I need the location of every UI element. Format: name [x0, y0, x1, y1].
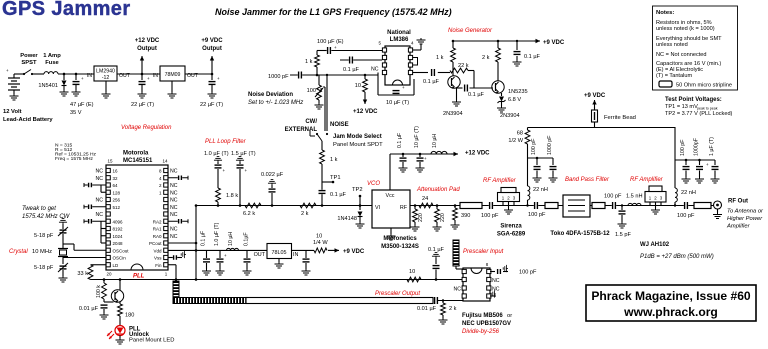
- svg-text:+12 VDC: +12 VDC: [135, 38, 160, 44]
- svg-text:NC = Not connected: NC = Not connected: [656, 52, 707, 58]
- svg-text:NC: NC: [170, 227, 178, 233]
- svg-text:National: National: [387, 30, 411, 36]
- svg-text:NC: NC: [96, 212, 104, 218]
- svg-text:MC145151: MC145151: [123, 158, 153, 164]
- svg-text:Noise Generator: Noise Generator: [448, 28, 493, 34]
- svg-text:1/2 W: 1/2 W: [508, 138, 523, 144]
- svg-text:Test Point Voltages:: Test Point Voltages:: [665, 97, 722, 103]
- svg-text:1 k: 1 k: [436, 55, 444, 61]
- svg-text:100 pF: 100 pF: [528, 212, 546, 218]
- svg-text:100: 100: [307, 88, 316, 94]
- svg-text:Fin: Fin: [155, 263, 162, 268]
- svg-text:1N5401: 1N5401: [38, 83, 58, 89]
- svg-text:14: 14: [162, 159, 168, 164]
- svg-text:Vss: Vss: [154, 256, 162, 261]
- svg-text:NC: NC: [96, 176, 104, 182]
- svg-text:+: +: [217, 76, 220, 81]
- svg-text:22 µF (T): 22 µF (T): [200, 102, 223, 108]
- svg-text:Vdd: Vdd: [153, 248, 162, 253]
- svg-text:100 µF (E): 100 µF (E): [317, 39, 344, 45]
- svg-text:GPS Jammer: GPS Jammer: [2, 0, 131, 20]
- svg-text:PLL Loop Filter: PLL Loop Filter: [205, 139, 247, 145]
- svg-text:Toko 4DFA-1575B-12: Toko 4DFA-1575B-12: [550, 231, 610, 237]
- svg-text:+9 VDC: +9 VDC: [201, 38, 223, 44]
- svg-text:OUT: OUT: [254, 252, 266, 258]
- svg-text:OSCout: OSCout: [113, 248, 130, 253]
- svg-text:+: +: [81, 76, 84, 81]
- svg-text:Ferrite Bead: Ferrite Bead: [604, 115, 636, 121]
- svg-text:RF: RF: [400, 205, 408, 211]
- svg-text:1000 pF: 1000 pF: [547, 135, 553, 155]
- svg-text:Crystal: Crystal: [9, 249, 28, 255]
- svg-text:Divide-by-256: Divide-by-256: [462, 329, 500, 335]
- svg-text:5: 5: [378, 41, 381, 46]
- svg-text:0.022 µF: 0.022 µF: [261, 172, 284, 178]
- svg-text:NC: NC: [170, 198, 178, 204]
- svg-text:+: +: [706, 162, 709, 167]
- svg-text:12 Volt: 12 Volt: [3, 109, 22, 115]
- svg-text:NC: NC: [170, 190, 178, 196]
- svg-text:100 pF: 100 pF: [519, 270, 537, 276]
- svg-text:Fuse: Fuse: [45, 60, 59, 66]
- svg-text:Voltage Regulation: Voltage Regulation: [121, 125, 172, 131]
- svg-text:Micronetics: Micronetics: [383, 236, 417, 242]
- svg-text:Vcc: Vcc: [386, 193, 395, 199]
- svg-text:Higher Power: Higher Power: [727, 216, 763, 222]
- svg-text:0.1 µF: 0.1 µF: [330, 192, 347, 198]
- svg-text:1000 pF: 1000 pF: [268, 74, 289, 80]
- svg-text:Notes:: Notes:: [656, 10, 674, 16]
- svg-text:1 Amp: 1 Amp: [43, 53, 61, 59]
- svg-text:10 µF (T): 10 µF (T): [414, 126, 420, 148]
- svg-text:NEC UPB1507GV: NEC UPB1507GV: [462, 321, 511, 327]
- svg-text:OUT: OUT: [119, 73, 131, 79]
- svg-text:0.1 µF: 0.1 µF: [423, 79, 440, 85]
- svg-text:512: 512: [113, 205, 121, 210]
- svg-text:2 k: 2 k: [482, 55, 490, 61]
- svg-text:1 k: 1 k: [330, 157, 338, 163]
- svg-text:15: 15: [107, 159, 113, 164]
- svg-text:PLL: PLL: [133, 274, 145, 280]
- svg-text:1N5235: 1N5235: [508, 89, 528, 95]
- svg-text:220: 220: [440, 213, 446, 222]
- svg-text:+: +: [245, 168, 248, 173]
- svg-text:0.1 µF: 0.1 µF: [343, 67, 360, 73]
- svg-text:8192: 8192: [113, 227, 124, 232]
- svg-text:6.2 k: 6.2 k: [243, 211, 255, 217]
- svg-text:Prescaler Input: Prescaler Input: [463, 249, 504, 255]
- svg-text:47 µF (E): 47 µF (E): [70, 102, 94, 108]
- svg-text:1.5 µF (T): 1.5 µF (T): [231, 151, 256, 157]
- svg-text:Panel Mount LED: Panel Mount LED: [129, 338, 174, 344]
- svg-text:1575.42 MHz CW: 1575.42 MHz CW: [22, 214, 71, 220]
- svg-text:-12: -12: [102, 75, 110, 81]
- svg-text:100 pF: 100 pF: [531, 138, 537, 155]
- svg-text:35 V: 35 V: [70, 110, 82, 116]
- svg-text:100 pF: 100 pF: [604, 194, 622, 200]
- svg-text:(T) = Tantalum: (T) = Tantalum: [656, 73, 692, 79]
- svg-text:0.1 µF: 0.1 µF: [468, 92, 485, 98]
- svg-text:220: 220: [418, 213, 424, 222]
- svg-text:+: +: [424, 156, 427, 161]
- svg-text:Band Pass Filter: Band Pass Filter: [565, 177, 610, 183]
- svg-text:Power: Power: [20, 53, 38, 59]
- svg-text:256: 256: [113, 198, 121, 203]
- svg-text:100 pF: 100 pF: [677, 213, 695, 219]
- svg-text:10 µH: 10 µH: [432, 134, 438, 148]
- svg-text:1.8 k: 1.8 k: [226, 193, 238, 199]
- svg-text:SGA-6289: SGA-6289: [497, 232, 526, 238]
- svg-text:+: +: [6, 68, 9, 73]
- svg-text:IN: IN: [87, 73, 92, 79]
- svg-text:Panel Mount SPDT: Panel Mount SPDT: [333, 142, 383, 148]
- svg-text:Lead-Acid Battery: Lead-Acid Battery: [3, 117, 53, 123]
- svg-text:NC: NC: [170, 212, 178, 218]
- svg-text:LM386: LM386: [390, 37, 409, 43]
- svg-text:10 MHz: 10 MHz: [32, 249, 52, 255]
- svg-text:Freq = 1575 MHz: Freq = 1575 MHz: [55, 156, 93, 162]
- svg-text:PCout: PCout: [149, 241, 162, 246]
- svg-text:10 µF (T): 10 µF (T): [386, 100, 409, 106]
- svg-text:22 nH: 22 nH: [533, 187, 548, 193]
- svg-text:10: 10: [316, 234, 322, 240]
- svg-text:LM2940: LM2940: [96, 69, 115, 75]
- svg-text:+9 VDC: +9 VDC: [584, 93, 606, 99]
- svg-text:peak to peak: peak to peak: [697, 107, 718, 111]
- svg-text:10: 10: [355, 83, 361, 89]
- svg-text:1: 1: [165, 272, 168, 277]
- svg-text:+9 VDC: +9 VDC: [343, 249, 365, 255]
- svg-text:10 µH: 10 µH: [228, 232, 234, 246]
- svg-text:22 µF (T): 22 µF (T): [131, 102, 154, 108]
- svg-text:1024: 1024: [113, 234, 124, 239]
- svg-text:1 µF (T): 1 µF (T): [709, 137, 715, 156]
- svg-text:NC: NC: [96, 198, 104, 204]
- svg-text:+: +: [402, 85, 405, 90]
- svg-text:WJ AH102: WJ AH102: [640, 242, 670, 248]
- svg-text:1N4148: 1N4148: [337, 216, 357, 222]
- svg-text:Tweak to get: Tweak to get: [22, 206, 56, 212]
- svg-text:2 k: 2 k: [449, 306, 457, 312]
- svg-text:Prescaler Output: Prescaler Output: [375, 291, 420, 297]
- svg-text:unless noted: unless noted: [656, 42, 688, 48]
- svg-text:NC: NC: [454, 287, 462, 293]
- svg-text:NC: NC: [170, 183, 178, 189]
- svg-text:TP1: TP1: [330, 175, 341, 181]
- svg-text:RF Out: RF Out: [728, 199, 748, 205]
- svg-text:16: 16: [113, 169, 119, 174]
- svg-text:1.0 µF (T): 1.0 µF (T): [204, 151, 229, 157]
- svg-text:100 k: 100 k: [96, 285, 102, 298]
- svg-text:OUT: OUT: [187, 73, 199, 79]
- svg-text:VI: VI: [375, 205, 380, 211]
- svg-text:Sirenza: Sirenza: [500, 224, 522, 230]
- svg-text:2N3904: 2N3904: [443, 111, 463, 117]
- svg-text:unless noted (k = 1000): unless noted (k = 1000): [656, 26, 715, 32]
- svg-text:5-18 pF: 5-18 pF: [34, 233, 54, 239]
- svg-text:1 k: 1 k: [305, 59, 313, 65]
- svg-text:32: 32: [113, 176, 119, 181]
- svg-text:5-18 pF: 5-18 pF: [34, 265, 54, 271]
- svg-text:Amplifier: Amplifier: [726, 224, 751, 230]
- svg-text:VCO: VCO: [367, 181, 380, 187]
- svg-text:0.1 µF: 0.1 µF: [397, 132, 403, 148]
- svg-text:Output: Output: [202, 46, 222, 52]
- svg-text:RA1: RA1: [153, 227, 162, 232]
- svg-text:+9 VDC: +9 VDC: [543, 40, 565, 46]
- svg-text:+: +: [334, 45, 337, 50]
- svg-text:100 pF: 100 pF: [680, 139, 686, 156]
- svg-text:CW/: CW/: [305, 119, 317, 125]
- svg-text:390: 390: [461, 213, 470, 219]
- svg-text:1.5 nH: 1.5 nH: [626, 194, 642, 200]
- svg-text:1.5 pF: 1.5 pF: [615, 232, 631, 238]
- svg-text:+12 VDC: +12 VDC: [353, 109, 378, 115]
- svg-text:LD: LD: [113, 263, 120, 268]
- svg-text:Jam Mode Select: Jam Mode Select: [333, 134, 382, 140]
- svg-text:64: 64: [113, 183, 119, 188]
- svg-text:0.1µF: 0.1µF: [244, 232, 250, 246]
- svg-text:NC: NC: [170, 169, 178, 175]
- svg-text:NC: NC: [371, 67, 379, 73]
- svg-text:NC: NC: [170, 234, 178, 240]
- svg-text:+: +: [147, 76, 150, 81]
- svg-text:1000pF: 1000pF: [694, 137, 700, 156]
- svg-text:+: +: [224, 253, 227, 258]
- svg-text:6.8 V: 6.8 V: [508, 97, 521, 103]
- svg-text:SPST: SPST: [21, 60, 37, 66]
- svg-text:2 k: 2 k: [301, 211, 309, 217]
- svg-text:128: 128: [113, 190, 121, 195]
- svg-text:2N3904: 2N3904: [500, 113, 520, 119]
- svg-text:78M09: 78M09: [165, 72, 181, 78]
- svg-text:TP2: TP2: [352, 187, 363, 193]
- svg-text:M3500-1324S: M3500-1324S: [381, 244, 419, 250]
- svg-text:To Antenna or: To Antenna or: [727, 209, 764, 215]
- svg-text:+12 VDC: +12 VDC: [465, 151, 490, 157]
- svg-text:or: or: [507, 313, 512, 319]
- svg-text:1.0 µF (T): 1.0 µF (T): [214, 222, 220, 246]
- svg-text:Motorola: Motorola: [123, 151, 149, 157]
- svg-text:20: 20: [106, 272, 112, 277]
- svg-text:TP1 = 13 mV: TP1 = 13 mV: [665, 104, 698, 110]
- svg-text:0.1 µF: 0.1 µF: [428, 247, 445, 253]
- svg-text:Phrack Magazine, Issue #60: Phrack Magazine, Issue #60: [591, 289, 751, 303]
- svg-text:Attenuation Pad: Attenuation Pad: [416, 187, 460, 193]
- svg-text:P1dB = +27 dBm (500 mW): P1dB = +27 dBm (500 mW): [640, 254, 714, 260]
- svg-text:68: 68: [517, 131, 523, 137]
- svg-text:RA2: RA2: [153, 219, 162, 224]
- svg-text:www.phrack.org: www.phrack.org: [623, 305, 718, 319]
- svg-text:0.01 µF: 0.01 µF: [79, 306, 99, 312]
- svg-text:0.1 µF: 0.1 µF: [201, 230, 207, 246]
- svg-text:IN: IN: [293, 252, 298, 258]
- svg-text:Noise Deviation: Noise Deviation: [248, 92, 293, 98]
- svg-text:TP2 = 3.77 V (PLL Locked): TP2 = 3.77 V (PLL Locked): [665, 111, 733, 117]
- svg-text:NC: NC: [170, 205, 178, 211]
- svg-text:4096: 4096: [113, 219, 124, 224]
- svg-text:24: 24: [422, 196, 428, 202]
- svg-text:NC: NC: [96, 169, 104, 175]
- svg-text:NOISE: NOISE: [330, 122, 349, 128]
- svg-text:RA0: RA0: [153, 234, 162, 239]
- svg-text:50 Ohm micro stripline: 50 Ohm micro stripline: [676, 83, 732, 89]
- svg-text:NC: NC: [492, 278, 500, 284]
- svg-text:OSCin: OSCin: [113, 256, 127, 261]
- svg-text:10: 10: [409, 269, 415, 275]
- svg-text:Output: Output: [137, 46, 157, 52]
- svg-text:33 k: 33 k: [77, 271, 88, 277]
- svg-text:RF Amplifier: RF Amplifier: [630, 177, 664, 183]
- svg-text:Set to +/- 1.023 MHz: Set to +/- 1.023 MHz: [248, 100, 303, 106]
- svg-text:EXTERNAL: EXTERNAL: [285, 127, 318, 133]
- svg-text:100 pF: 100 pF: [481, 213, 499, 219]
- svg-text:Noise Jammer for the L1 GPS Fr: Noise Jammer for the L1 GPS Frequency (1…: [215, 7, 452, 17]
- svg-text:180: 180: [125, 313, 134, 319]
- svg-text:1/4 W: 1/4 W: [313, 240, 328, 246]
- svg-text:2048: 2048: [113, 241, 124, 246]
- svg-text:78L05: 78L05: [272, 250, 287, 256]
- svg-text:0.1 µF: 0.1 µF: [524, 54, 541, 60]
- svg-text:IN: IN: [153, 73, 158, 79]
- svg-text:Fujitsu MB506: Fujitsu MB506: [462, 313, 503, 319]
- svg-text:RF Amplifier: RF Amplifier: [483, 178, 517, 184]
- svg-text:0.01 µF: 0.01 µF: [417, 306, 437, 312]
- svg-text:8: 8: [486, 262, 489, 267]
- svg-text:+: +: [223, 168, 226, 173]
- svg-text:22 nH: 22 nH: [681, 190, 696, 196]
- svg-text:22 k: 22 k: [458, 63, 469, 69]
- svg-text:4: 4: [411, 41, 414, 46]
